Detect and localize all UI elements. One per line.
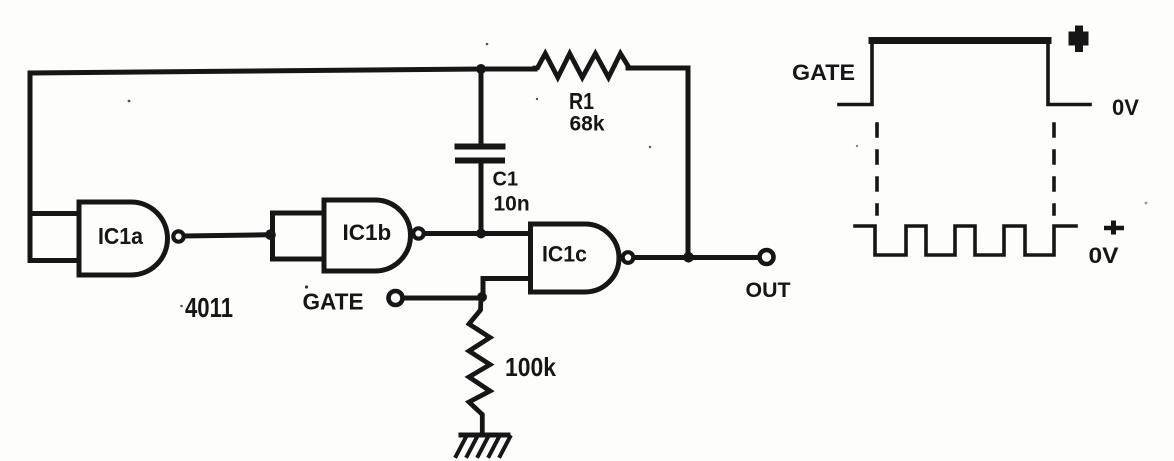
svg-text:IC1b: IC1b [343,220,392,245]
svg-text:C1: C1 [493,169,519,191]
svg-text:0V: 0V [1089,243,1119,268]
svg-text:GATE: GATE [792,60,855,85]
svg-text:IC1a: IC1a [98,223,144,249]
svg-text:100k: 100k [505,352,556,382]
svg-text:4011: 4011 [185,292,233,323]
svg-text:68k: 68k [570,113,605,136]
svg-text:0V: 0V [1112,95,1139,120]
svg-text:OUT: OUT [746,279,791,302]
svg-text:10n: 10n [494,193,530,216]
svg-text:GATE: GATE [303,289,364,315]
svg-text:IC1c: IC1c [542,242,587,267]
svg-text:R1: R1 [569,88,594,114]
